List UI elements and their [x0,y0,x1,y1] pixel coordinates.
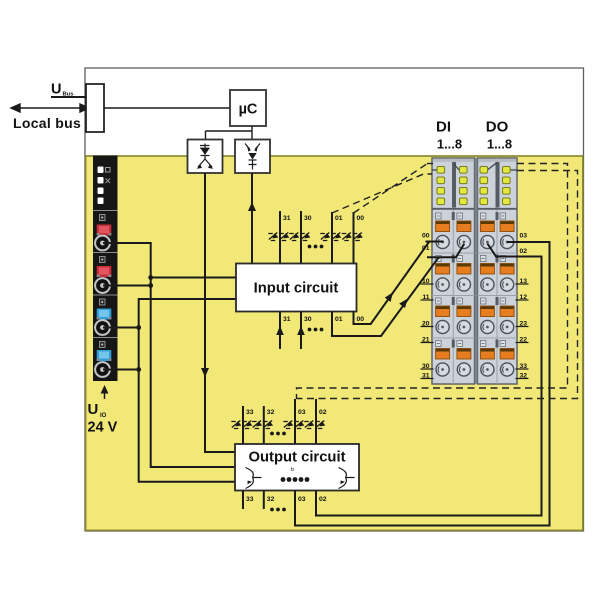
label terminal 31 [421,373,434,380]
svg-text:01: 01 [335,215,343,222]
wire output 32 above [263,406,265,444]
label terminal 33 [516,363,529,370]
node junction A [148,275,153,280]
wire input line 2 to output line 3 [139,299,236,482]
diode D03 suppressor [283,421,304,429]
wire dashed inner boundary [297,164,568,400]
node terminal levels [432,212,517,376]
node junction D [136,367,141,372]
svg-text:31: 31 [283,215,291,222]
diode D01 suppressor [320,233,341,241]
yellow module area [86,156,583,530]
node arrow up on U2 wire [248,202,256,211]
wire output 02 to terminal 02 [316,244,542,516]
node dots below output [270,508,286,512]
wire output 02 above [315,399,317,444]
svg-text:30: 30 [304,316,312,323]
svg-text:DI: DI [436,119,451,136]
svg-text:1...8: 1...8 [487,137,512,152]
LED DI column [437,167,467,205]
node arrow on 00 diagonal [385,292,393,302]
node dots below input [308,328,324,332]
svg-text:02: 02 [319,496,327,503]
node dots inside output [281,477,310,482]
wire input 30 above [300,211,302,264]
label terminal 12 [516,294,529,301]
wire bus to microcontroller [104,107,230,109]
wire block LED separator [432,208,517,210]
label terminal 20 [421,321,434,328]
svg-text:02: 02 [319,409,327,416]
svg-text:00: 00 [357,316,365,323]
diode D32 suppressor [252,421,273,429]
label terminal 23 [516,321,529,328]
connector K1 red [95,215,111,251]
transistor U2 optocoupler output [235,140,270,174]
wire output 33 below [242,491,244,510]
node DI LED bus [432,162,459,208]
node DO LED bus [488,162,517,208]
diode D31 suppressor [268,233,289,241]
label terminal 30 [421,363,434,370]
bus connector J1 [86,84,104,132]
node junction C [136,325,141,330]
node strip icon marks [106,168,111,184]
wire output 03 to terminal 03 [295,242,550,526]
wire U_Bus underline [51,96,86,98]
node arrow on 01 diagonal [399,299,408,309]
svg-text:1...8: 1...8 [437,137,462,152]
wire input 01 to terminal 01 [332,244,464,336]
label terminal 32 [516,373,529,380]
connector K2 red [95,257,111,293]
node arrow up 31 [276,326,284,335]
node block divider strip [475,158,478,384]
wire input 30 below [300,312,302,350]
transistor U1 optocoupler input [188,140,223,174]
diode D02 suppressor [304,421,325,429]
svg-text:µC: µC [239,102,258,118]
transistor Q1 [246,468,262,489]
diode D33 suppressor [231,421,252,429]
node arrow up U_IO [101,385,109,399]
svg-text:03: 03 [298,496,306,503]
svg-text:02: 02 [520,248,528,255]
label terminal 10 [421,278,434,285]
wire K1 to input and output circuits [103,243,235,467]
wire dashed diagonal to 00 [354,164,428,213]
svg-text:01: 01 [335,316,343,323]
svg-text:32: 32 [267,496,275,503]
wire K2 stub [103,285,151,287]
label terminal 13 [516,278,529,285]
svg-text:00: 00 [422,233,430,240]
label U_Bus [51,82,73,98]
node dots above output [270,432,286,436]
connector K4 blue [95,342,111,377]
op-amp U4 input circuit [236,264,357,312]
terminal block DO housing [478,158,518,384]
op-amp U5 output circuit [235,444,359,491]
svg-text:01: 01 [422,245,430,252]
wire output 03 above [294,399,296,444]
svg-text:DO: DO [486,119,509,136]
terminal block DI housing [432,158,475,384]
op-amp U3 microcontroller [230,90,266,126]
label U_IO 24V [88,401,118,436]
wire output 32 below [263,491,265,510]
node arrow up 30 [297,326,305,335]
wire input 31 below [279,312,281,350]
wire dashed diagonal to 01 [332,174,432,213]
transistor Q2 [339,468,355,489]
svg-text:IO: IO [100,413,107,419]
svg-text:32: 32 [267,409,275,416]
svg-text:U: U [88,401,99,418]
svg-text:Input circuit: Input circuit [254,281,339,297]
LED DO column [480,167,510,205]
wire optocoupler U2 to input circuit [251,173,253,264]
diode D00 suppressor [342,233,363,241]
wire branch to input circuit line 1 [151,277,236,279]
wire K4 stub [103,369,139,371]
svg-text:24 V: 24 V [88,420,118,436]
label terminal 11 [421,294,434,301]
label terminal 21 [421,337,434,344]
wire microcontroller to optocouplers [206,126,253,140]
svg-text:03: 03 [298,409,306,416]
svg-text:b: b [291,467,294,473]
svg-text:03: 03 [520,233,528,240]
wire dashed outer boundary [297,171,578,399]
wire output 33 above [242,406,244,444]
svg-text:00: 00 [357,215,365,222]
connector K3 blue [95,299,111,335]
node junction B [148,283,153,288]
connector strip housing [93,156,118,382]
svg-text:33: 33 [246,496,254,503]
wire input 01 above [331,212,333,264]
wire input 00 above [353,212,355,264]
LED indicators on strip [98,167,104,205]
svg-text:30: 30 [304,215,312,222]
wire K3 stub [103,327,139,329]
wire input 00 to terminal 00 [354,242,444,325]
node dots above input [308,245,324,249]
svg-text:31: 31 [283,316,291,323]
frame outer rectangle [85,68,584,531]
svg-text:U: U [51,82,61,98]
wire optocoupler U1 to output circuit [205,173,235,452]
wire strip separators [93,211,118,338]
diode D30 suppressor [289,233,310,241]
wire input 31 above [279,211,281,264]
svg-text:33: 33 [246,409,254,416]
svg-text:Output circuit: Output circuit [249,450,346,466]
node arrow down on U1 wire [201,368,209,377]
node Local bus arrow [11,104,89,112]
label terminal 22 [516,337,529,344]
svg-text:Local bus: Local bus [13,115,81,131]
